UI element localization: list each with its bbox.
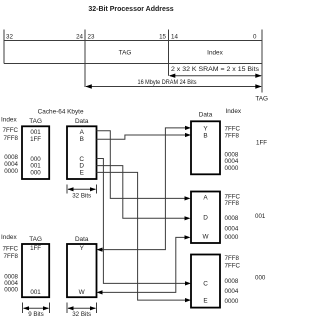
svg-text:7FF8: 7FF8 [4,253,19,260]
svg-text:W: W [79,289,86,296]
svg-text:0000: 0000 [225,298,239,305]
DRAM box2 (tag 001) [191,192,220,244]
svg-text:000: 000 [30,170,41,177]
svg-text:2 x 32 K SRAM = 2 x 15 Bits: 2 x 32 K SRAM = 2 x 15 Bits [171,66,259,73]
svg-text:15: 15 [159,33,166,40]
svg-text:32-Bit Processor Address: 32-Bit Processor Address [88,6,173,13]
svg-text:E: E [80,170,84,177]
wire Y: box1 Y to set2 Data Y (double arrow) [101,128,188,250]
svg-text:23: 23 [88,33,95,40]
address bar tick bit31 left edge [3,30,5,64]
svg-text:TAG: TAG [119,49,132,56]
svg-text:W: W [202,234,209,241]
svg-text:001: 001 [30,289,41,296]
svg-text:0000: 0000 [4,168,18,175]
wire A arrowhead into box2 [185,196,191,200]
svg-text:32: 32 [6,33,13,40]
SRAM dimension arrow [169,74,262,78]
svg-text:7FF8: 7FF8 [225,200,240,207]
wire A: set1 Data A to box2 A [97,131,187,199]
svg-text:32 Bits: 32 Bits [72,311,91,318]
wire B: set1 Data B to box1 B [97,135,188,139]
svg-text:1FF: 1FF [30,245,41,252]
svg-text:A: A [203,195,208,202]
svg-text:0: 0 [253,33,257,40]
svg-text:B: B [80,136,84,143]
svg-text:0008: 0008 [225,278,239,285]
set2 9 Bits dimension arrow [23,303,50,314]
wire W: box2 W to set2 Data W (double arrow) [101,237,187,292]
wire E arrowhead into box3 [185,298,191,302]
svg-text:Index: Index [225,108,241,115]
wire D arrowhead into box2 [185,216,191,220]
svg-text:0000: 0000 [225,234,239,241]
set1 32 Bits dimension arrow [67,185,97,194]
svg-text:Data: Data [75,118,89,125]
svg-text:Index: Index [1,117,17,124]
wire D: set1 Data D to box2 D [97,166,187,219]
svg-text:001: 001 [30,129,41,136]
svg-text:24: 24 [76,33,83,40]
DRAM box1 (tag 1FF) [191,121,220,174]
svg-text:0000: 0000 [4,287,18,294]
svg-text:E: E [203,297,207,304]
wire C: set1 Data C to box3 C [97,159,188,284]
svg-text:Y: Y [80,245,85,252]
svg-text:7FFC: 7FFC [225,263,241,270]
svg-text:0004: 0004 [225,288,239,295]
set2 Data box [67,244,97,297]
wire C arrowhead into box3 [185,281,191,285]
address bar tick bit24/23 [84,30,86,88]
address bar rectangle [4,41,262,64]
svg-text:Index: Index [207,49,223,56]
svg-text:7FF8: 7FF8 [4,135,19,142]
svg-text:1FF: 1FF [30,136,41,143]
DRAM dimension arrow [85,84,261,88]
set2 TAG box [22,244,49,297]
svg-text:9 Bits: 9 Bits [28,311,43,318]
svg-text:7FFC: 7FFC [3,245,19,252]
wire Y arrowhead into set2 Data [97,248,103,252]
address bar tick bit15/14 [168,30,170,76]
svg-text:0004: 0004 [4,161,18,168]
svg-text:1FF: 1FF [256,140,267,147]
svg-text:A: A [80,129,85,136]
set2 32 Bits dimension arrow [67,303,97,314]
set1 Data box [67,126,97,179]
svg-text:Cache-64 Kbyte: Cache-64 Kbyte [38,109,84,116]
address bar tick bit0 right edge [261,30,263,93]
svg-text:32 Bits: 32 Bits [72,192,91,199]
svg-text:16 Mbyte DRAM 24 Bits: 16 Mbyte DRAM 24 Bits [138,79,197,86]
svg-text:TAG: TAG [29,236,42,243]
wire W arrowhead into box2 [185,235,191,239]
svg-text:C: C [203,280,208,287]
svg-text:7FFC: 7FFC [3,127,19,134]
svg-text:TAG: TAG [255,96,268,103]
wire E: set1 Data E to box3 E [97,172,188,300]
svg-text:14: 14 [171,33,178,40]
DRAM box3 (tag 000) [191,255,220,308]
svg-text:B: B [203,132,207,139]
wire W arrowhead into set2 Data [97,290,103,294]
svg-text:7FF8: 7FF8 [225,255,240,262]
svg-text:0008: 0008 [225,215,239,222]
set1 TAG box [22,126,49,179]
svg-text:0008: 0008 [4,154,18,161]
svg-text:Data: Data [75,236,89,243]
svg-text:000: 000 [255,274,266,281]
wire Y arrowhead into box1 [185,126,191,130]
svg-text:7FF8: 7FF8 [225,132,240,139]
svg-text:Data: Data [199,111,213,118]
wire B arrowhead into box1 [185,133,191,137]
svg-text:0000: 0000 [225,165,239,172]
svg-text:001: 001 [255,213,266,220]
svg-text:Index: Index [1,234,17,241]
svg-text:0004: 0004 [225,226,239,233]
svg-text:TAG: TAG [29,118,42,125]
svg-text:D: D [203,214,208,221]
